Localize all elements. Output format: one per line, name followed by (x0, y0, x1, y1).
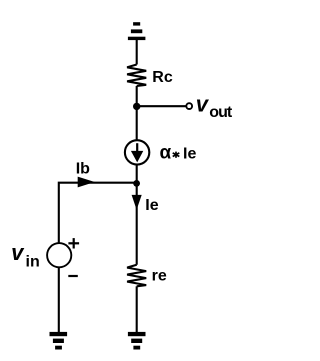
svg-text:Ie: Ie (145, 197, 158, 214)
svg-text:Rc: Rc (152, 69, 173, 86)
svg-text:in: in (26, 254, 40, 271)
svg-text:Ie: Ie (183, 146, 196, 163)
svg-text:re: re (152, 267, 167, 284)
svg-text:v: v (196, 92, 210, 117)
svg-text:v: v (11, 240, 25, 265)
svg-text:α: α (160, 143, 172, 164)
svg-text:Ib: Ib (76, 160, 90, 177)
svg-text:out: out (209, 104, 233, 121)
